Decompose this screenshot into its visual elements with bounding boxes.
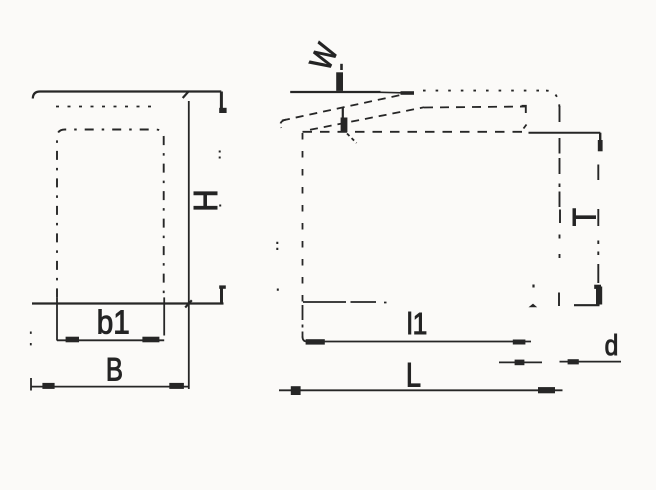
d label bbox=[605, 329, 619, 361]
d left arrow blob bbox=[515, 360, 525, 366]
svg-text:d: d bbox=[605, 329, 619, 361]
W label (rotated) bbox=[304, 39, 346, 76]
svg-text:B: B bbox=[106, 353, 123, 388]
B left arrow blob bbox=[42, 383, 54, 389]
open lid top slanted dashed line bbox=[282, 95, 403, 121]
lid tip slant connector bbox=[381, 91, 403, 94]
T label (rotated) bbox=[567, 208, 603, 226]
b1 left extension line bbox=[56, 297, 58, 340]
d right arrow blob bbox=[568, 359, 579, 364]
B dimension line bbox=[31, 386, 189, 388]
body rim right corner dash bbox=[524, 125, 527, 129]
svg-text:L: L bbox=[406, 355, 421, 394]
top-right hook foot bbox=[219, 108, 226, 113]
b1 label bbox=[97, 304, 130, 341]
body bottom-right corner triangle mark bbox=[529, 304, 538, 308]
b1 right extension line bbox=[163, 297, 165, 335]
L dimension line bbox=[279, 389, 563, 391]
closed lid right edge dash-dot segments bbox=[559, 106, 560, 306]
T bottom extension line bbox=[574, 304, 600, 306]
W upper arrow thick bar bbox=[336, 72, 343, 91]
L left arrow blob bbox=[291, 386, 301, 395]
box top edge with rounded left corner, extended right as H top extension bbox=[33, 92, 222, 99]
B label bbox=[106, 353, 123, 388]
W lower arrow slanted tail bbox=[347, 134, 357, 144]
body left edge dashed bbox=[302, 133, 304, 302]
box bottom edge, extended right as H bottom extension bbox=[32, 302, 224, 304]
T top extension line bbox=[529, 132, 601, 134]
bottom-right hook (H bottom extension end) bbox=[220, 287, 223, 304]
closed lid top dotted line bbox=[423, 90, 546, 92]
open lid bottom slanted dashed line bbox=[310, 107, 424, 130]
b1 left arrow blob bbox=[66, 337, 79, 343]
svg-text:T: T bbox=[567, 208, 603, 226]
lid tip thick bar bbox=[401, 91, 415, 95]
T dimension line dashed segments bbox=[597, 165, 599, 284]
B right arrow blob bbox=[169, 383, 184, 389]
l1 dimension line bbox=[324, 341, 531, 343]
B left end tick bbox=[30, 378, 32, 391]
b1 right arrow blob bbox=[142, 337, 159, 343]
H bottom arrow oblique tick bbox=[185, 300, 192, 307]
bottom-left corner into l1 arrow bbox=[303, 337, 308, 342]
L label bbox=[406, 355, 421, 394]
W lower arrow stem bbox=[342, 108, 344, 119]
l1 right arrow blob bbox=[513, 340, 526, 345]
closed lid seam dashed line bbox=[424, 107, 526, 108]
box right edge + B right extension line bbox=[188, 101, 190, 389]
top-right hook (H top extension end) bbox=[220, 92, 223, 110]
W extension dash above arrow bbox=[340, 64, 343, 70]
T top hook arrow blob bbox=[598, 140, 603, 151]
left edge lower dash-dot bbox=[302, 305, 304, 338]
W dimension line (solid, lid tip level) bbox=[290, 91, 380, 93]
H top arrow oblique tick bbox=[183, 91, 189, 98]
svg-text:l1: l1 bbox=[407, 307, 428, 341]
svg-text:H: H bbox=[187, 189, 224, 211]
body rim dashed line bbox=[303, 131, 527, 133]
body right edge top corner dash bbox=[522, 106, 526, 113]
B left extension dots bbox=[30, 332, 32, 346]
d right piece bbox=[560, 361, 622, 363]
L right arrow blob bbox=[538, 387, 555, 393]
hinge curl bbox=[280, 120, 286, 128]
body right edge remnant dot bbox=[532, 285, 534, 288]
H dimension line faded dots bbox=[219, 151, 222, 207]
T bottom hook serif bbox=[594, 285, 601, 289]
stray dots left of L line bbox=[276, 242, 279, 291]
H label bbox=[187, 189, 224, 211]
b1 dimension line bbox=[57, 339, 164, 341]
inner dashed rectangle (hidden lid inner edge) bbox=[57, 130, 164, 298]
l1 left arrow blob bbox=[306, 339, 325, 344]
W lower arrow thick bar bbox=[341, 118, 348, 133]
T bottom hook arrow blob bbox=[596, 287, 602, 305]
d left extension piece bbox=[499, 361, 542, 363]
lid seam dotted line bbox=[56, 106, 152, 108]
body bottom dashed bbox=[303, 301, 387, 304]
closed lid top-right rounded corner (dotted) bbox=[546, 91, 560, 110]
svg-text:b1: b1 bbox=[97, 304, 130, 341]
l1 label bbox=[407, 307, 428, 341]
T top hook arrow bbox=[599, 133, 601, 141]
bottom-right hook serif bbox=[219, 285, 226, 288]
